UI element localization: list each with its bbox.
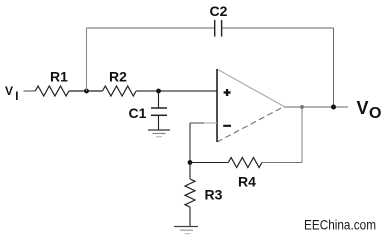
wire: node C to R4 (190, 162, 228, 164)
svg-text:C1: C1 (129, 105, 147, 121)
ground (below C1) (148, 130, 170, 137)
label VO (357, 98, 382, 122)
wire: R4 right lead to feedback corner (262, 162, 302, 164)
svg-text:I: I (15, 91, 18, 103)
svg-text:R2: R2 (109, 69, 127, 85)
node D (feedback tap on output wire) (300, 105, 304, 109)
resistor R1 (35, 86, 69, 96)
svg-text:V: V (5, 84, 13, 98)
wire: feedback vertical from output node down to R4 (301, 107, 303, 163)
svg-text:C2: C2 (210, 3, 228, 19)
wire: C1 to ground (158, 115, 160, 130)
svg-text:V: V (357, 98, 369, 118)
node C (junction of R3, R4, inverting input) (188, 160, 193, 165)
svg-text:O: O (369, 105, 381, 122)
resistor R4 (228, 158, 262, 168)
resistor R3 (185, 163, 195, 208)
node A (junction of R1, R2, C2 branch) (84, 89, 89, 94)
wire: top feedback, left segment to C2 (87, 27, 215, 29)
capacitor C2 (215, 20, 222, 37)
wire: vertical from node A up to top feedback wire (86, 28, 88, 91)
wire: op-amp output to VO (284, 106, 348, 108)
svg-text:EEChina.com: EEChina.com (304, 217, 376, 233)
ground (below R3) (174, 227, 198, 234)
op-amp U1 (217, 69, 284, 142)
wire: node B down to C1 (158, 91, 160, 108)
svg-text:R3: R3 (205, 187, 223, 203)
wire: R3 to ground (189, 207, 191, 227)
node B (junction of R2, C1, op-amp input) (156, 89, 161, 94)
capacitor C1 (151, 108, 167, 115)
svg-text:R1: R1 (50, 69, 68, 85)
wire: inverting input vertical down to node C (189, 123, 191, 163)
wire: R1 to node A (69, 90, 103, 92)
wire: top feedback, right segment from C2 to output branch (222, 27, 334, 29)
label VI (5, 84, 18, 103)
pin: op-amp minus symbol (223, 125, 231, 127)
resistor R2 (103, 86, 137, 96)
node E (junction of output and C2 branch) (331, 105, 336, 110)
wire: R2 to op-amp noninverting input (136, 90, 217, 92)
wire: vertical from top feedback down to output node (333, 28, 335, 107)
wire: inverting input horizontal (190, 122, 204, 124)
wire: input lead from VI to R1 (24, 90, 36, 92)
pin: op-amp plus symbol (224, 89, 231, 96)
svg-text:R4: R4 (238, 174, 256, 190)
